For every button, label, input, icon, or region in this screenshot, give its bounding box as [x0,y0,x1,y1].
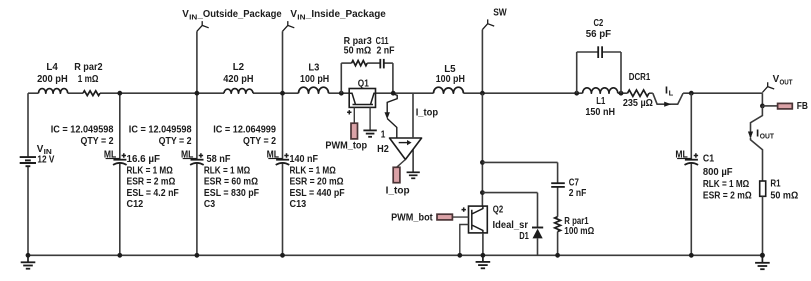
node C13 bottom junction [280,253,285,258]
current sense H2 (triangle) [390,138,422,160]
svg-text:I_top: I_top [386,185,410,196]
svg-text:100 mΩ: 100 mΩ [564,226,594,237]
label L1 value [585,96,615,118]
svg-text:2 nF: 2 nF [376,46,394,57]
label R par1 value [564,216,594,237]
capacitor C3 (ML electrolytic) [190,160,204,165]
svg-text:H2: H2 [377,144,389,155]
capacitor C12 (ML electrolytic) [113,160,127,165]
ground (H2) [407,150,420,179]
wire IL current jog [653,93,683,104]
label C1 ML flag [675,150,698,161]
label L2 value [223,62,253,85]
node Q1 left junction [339,91,344,96]
inductor L2 [224,89,253,94]
wire battery branch [27,93,29,255]
wire Q2 gate lead [452,216,468,218]
label D1 [519,231,529,242]
svg-text:OUT: OUT [780,77,793,86]
label VIN value [37,144,55,166]
label IC/QTY block 3 [213,124,276,147]
node SW junction [480,91,485,96]
port PWM_top [351,123,358,139]
node C3 bottom junction [195,253,200,258]
svg-text:100 pH: 100 pH [436,74,465,85]
label VIN_Outside_Package [182,9,282,21]
wire D1 branch [482,193,537,256]
inductor L5 [434,87,464,93]
wire R1 bottom lead [762,196,764,255]
wire C1 branch [690,93,692,255]
svg-text:R par2: R par2 [74,62,103,73]
label DCR1 [623,72,653,109]
diode D1 [532,228,543,239]
node C7 tap junction [480,160,485,165]
svg-text:_Inside_Package: _Inside_Package [305,9,386,20]
svg-text:RLK = 1 MΩ: RLK = 1 MΩ [204,165,250,176]
svg-text:QTY = 2: QTY = 2 [81,136,114,147]
svg-text:SW: SW [493,8,507,19]
port PWM_bot [437,214,452,220]
label IC/QTY block 2 [129,124,192,147]
svg-text:IN: IN [297,12,305,21]
node C13 top junction [280,91,285,96]
label L5 value [436,64,465,85]
label C7 value [569,178,587,200]
svg-text:ESL = 830 pF: ESL = 830 pF [204,188,259,199]
svg-text:C2: C2 [594,18,604,29]
label H2 [377,144,389,155]
node C12 bottom junction [117,253,122,258]
svg-text:OUT: OUT [760,132,775,141]
wire H2 top terminal [412,93,414,138]
wire VIN_Outside_Package flag lead [196,31,198,93]
net flag VOUT [762,82,774,92]
node C12 top junction [117,91,122,96]
svg-text:L3: L3 [308,62,320,73]
node C1 top junction [689,91,694,96]
svg-text:V: V [773,74,780,85]
wire main top rail [28,92,762,94]
ground (output) [755,255,770,269]
svg-text:RLK = 1 MΩ: RLK = 1 MΩ [290,165,336,176]
wire C2 loop [577,52,621,93]
node L1 left junction [574,91,579,96]
svg-text:Q2: Q2 [493,205,504,216]
svg-text:QTY = 2: QTY = 2 [159,136,192,147]
svg-text:_Outside_Package: _Outside_Package [197,9,282,20]
node FB junction [760,104,765,109]
wire C3 branch [196,93,198,255]
svg-text:DCR1: DCR1 [629,72,651,83]
wire Q2 return lead [460,225,469,256]
svg-text:100 pH: 100 pH [300,74,329,85]
capacitor C7 [551,183,565,187]
label I_top (sense name) [416,107,438,118]
node R par1 bottom junction [555,253,560,258]
voltage source VIN battery [20,157,36,166]
ground (Q1 return) [363,130,376,136]
label VIN_Inside_Package [290,9,386,21]
label I_top port [386,185,410,196]
svg-text:IC = 12.064999: IC = 12.064999 [213,124,276,135]
svg-text:ESR = 20 mΩ: ESR = 20 mΩ [290,177,344,188]
wire R par3/C11 loop [341,63,393,93]
svg-text:ESR = 2 mΩ: ESR = 2 mΩ [127,177,176,188]
svg-text:C1: C1 [703,154,715,165]
label L3 value [300,62,329,84]
wire Q1 return leg [369,107,371,130]
label C1 values [703,154,752,202]
svg-text:L2: L2 [233,62,245,73]
svg-text:420 pH: 420 pH [223,74,253,85]
inductor L1 [583,88,618,93]
resistor R par3 [352,60,368,65]
svg-text:50 mΩ: 50 mΩ [344,46,372,57]
wire bottom ground rail [28,254,762,256]
label SW [493,8,507,19]
svg-text:140 nF: 140 nF [290,154,319,165]
wire SW flag lead [481,30,483,94]
label C13 ML flag [267,150,289,161]
label C12 ML flag [104,150,126,161]
node output ground junction [760,253,765,258]
ground (Q2) [476,255,491,268]
svg-text:2 nF: 2 nF [569,188,587,199]
label IL arrow [664,102,671,107]
inductor L3 [299,87,329,93]
label Q1 [358,78,369,89]
wire H2 output lead [397,160,406,168]
ground (battery) [21,255,36,268]
label FB [797,101,808,112]
capacitor C2 [598,46,602,58]
label Q2 [493,205,504,216]
label VOUT [773,74,793,86]
svg-text:D1: D1 [519,231,529,242]
label Q2 gate plus [462,207,466,211]
svg-text:1 mΩ: 1 mΩ [78,74,99,85]
wire Q2 source leg [482,233,484,255]
label R par2 value [74,62,103,85]
label R par3 value [344,36,373,57]
switch Q2 [469,206,488,233]
wire C12 branch [119,93,121,255]
label IOUT [756,128,774,140]
label H2 pin 1 [381,129,386,140]
svg-text:Q1: Q1 [358,78,369,89]
net flag SW [482,19,494,29]
net flag VIN_Inside_Package [283,21,295,31]
label IL [665,85,674,97]
label PWM_bot [391,213,433,224]
svg-text:ESL = 440 pF: ESL = 440 pF [290,188,345,199]
node Q2 bottom junction [481,253,486,258]
svg-text:IN: IN [189,12,197,21]
node battery bottom junction [26,253,31,258]
resistor R par2 [83,91,100,96]
inductor L4 [39,89,68,94]
svg-text:R1: R1 [770,179,781,190]
svg-text:1: 1 [381,129,386,140]
port FB [778,103,793,109]
capacitor C1 (ML electrolytic) [685,160,699,165]
svg-text:C13: C13 [290,199,307,210]
svg-text:235 µΩ: 235 µΩ [623,98,653,109]
port I_top [393,167,400,182]
label IOUT arrow [748,132,753,139]
node L1 right junction [619,91,624,96]
svg-text:ESR = 60 mΩ: ESR = 60 mΩ [204,177,258,188]
label L4 value [37,62,68,85]
svg-text:ESL = 4.2 nF: ESL = 4.2 nF [127,188,179,199]
wire VIN_Inside_Package flag lead [282,31,284,93]
svg-text:V: V [182,9,189,20]
label C3 ML flag [181,150,203,161]
svg-text:C3: C3 [204,199,216,210]
label Q1 gate plus [347,110,351,114]
svg-text:16.6 µF: 16.6 µF [127,154,161,165]
svg-text:L1: L1 [596,96,605,107]
label PWM_top [325,140,367,151]
node Q1 right junction [391,91,396,96]
label C2 value [586,18,611,40]
capacitor C11 [380,59,384,69]
svg-text:I_top: I_top [416,107,438,118]
svg-text:58 nF: 58 nF [207,154,231,165]
label R1 value [770,179,798,202]
node C3 top junction [195,91,200,96]
wire FB lead [762,105,777,107]
node C1 bottom junction [689,253,694,258]
svg-text:IC = 12.049598: IC = 12.049598 [51,124,114,135]
wire Q1 gate leg [353,107,355,123]
resistor DCR1 [628,90,649,96]
label Ideal_sr [493,220,529,231]
label IC/QTY block 1 [51,124,114,147]
svg-text:56 pF: 56 pF [586,29,611,40]
svg-text:ESR = 2 mΩ: ESR = 2 mΩ [703,190,752,201]
wire C13 branch [282,93,284,255]
label C13 values [290,154,345,210]
svg-text:C7: C7 [569,178,580,189]
svg-text:V: V [37,144,44,155]
svg-text:150 nH: 150 nH [585,107,615,118]
svg-text:L: L [669,88,674,97]
svg-text:QTY = 2: QTY = 2 [243,136,276,147]
node D1 tap junction [480,190,485,195]
svg-text:12 V: 12 V [37,154,54,165]
net flag VIN_Outside_Package [197,21,209,31]
svg-text:Ideal_sr: Ideal_sr [493,220,529,231]
svg-text:PWM_top: PWM_top [325,140,367,151]
label C3 values [204,154,259,210]
capacitor C13 (ML electrolytic) [276,160,290,165]
svg-text:50 mΩ: 50 mΩ [770,190,798,201]
switch Q1 [349,89,375,108]
wire C7 branch [482,162,557,255]
resistor R par1 [555,217,561,232]
svg-text:RLK = 1 MΩ: RLK = 1 MΩ [127,165,173,176]
label C12 values [127,154,179,210]
wire VOUT branch [761,93,763,106]
svg-text:C12: C12 [127,199,144,210]
label C11 value [376,36,395,57]
svg-text:200 pH: 200 pH [37,74,68,85]
svg-text:PWM_bot: PWM_bot [391,213,433,224]
svg-text:IC = 12.049598: IC = 12.049598 [129,124,192,135]
wire SW to Q2 [481,93,483,206]
svg-text:L4: L4 [46,62,58,73]
svg-text:FB: FB [797,101,808,112]
svg-text:V: V [290,9,297,20]
wire H2 input squiggle [385,94,398,138]
wire IOUT current jog [751,106,763,181]
svg-text:800 µF: 800 µF [703,167,733,178]
resistor R1 [760,181,766,196]
svg-text:RLK = 1 MΩ: RLK = 1 MΩ [703,179,749,190]
node Q2 return junction [457,253,462,258]
